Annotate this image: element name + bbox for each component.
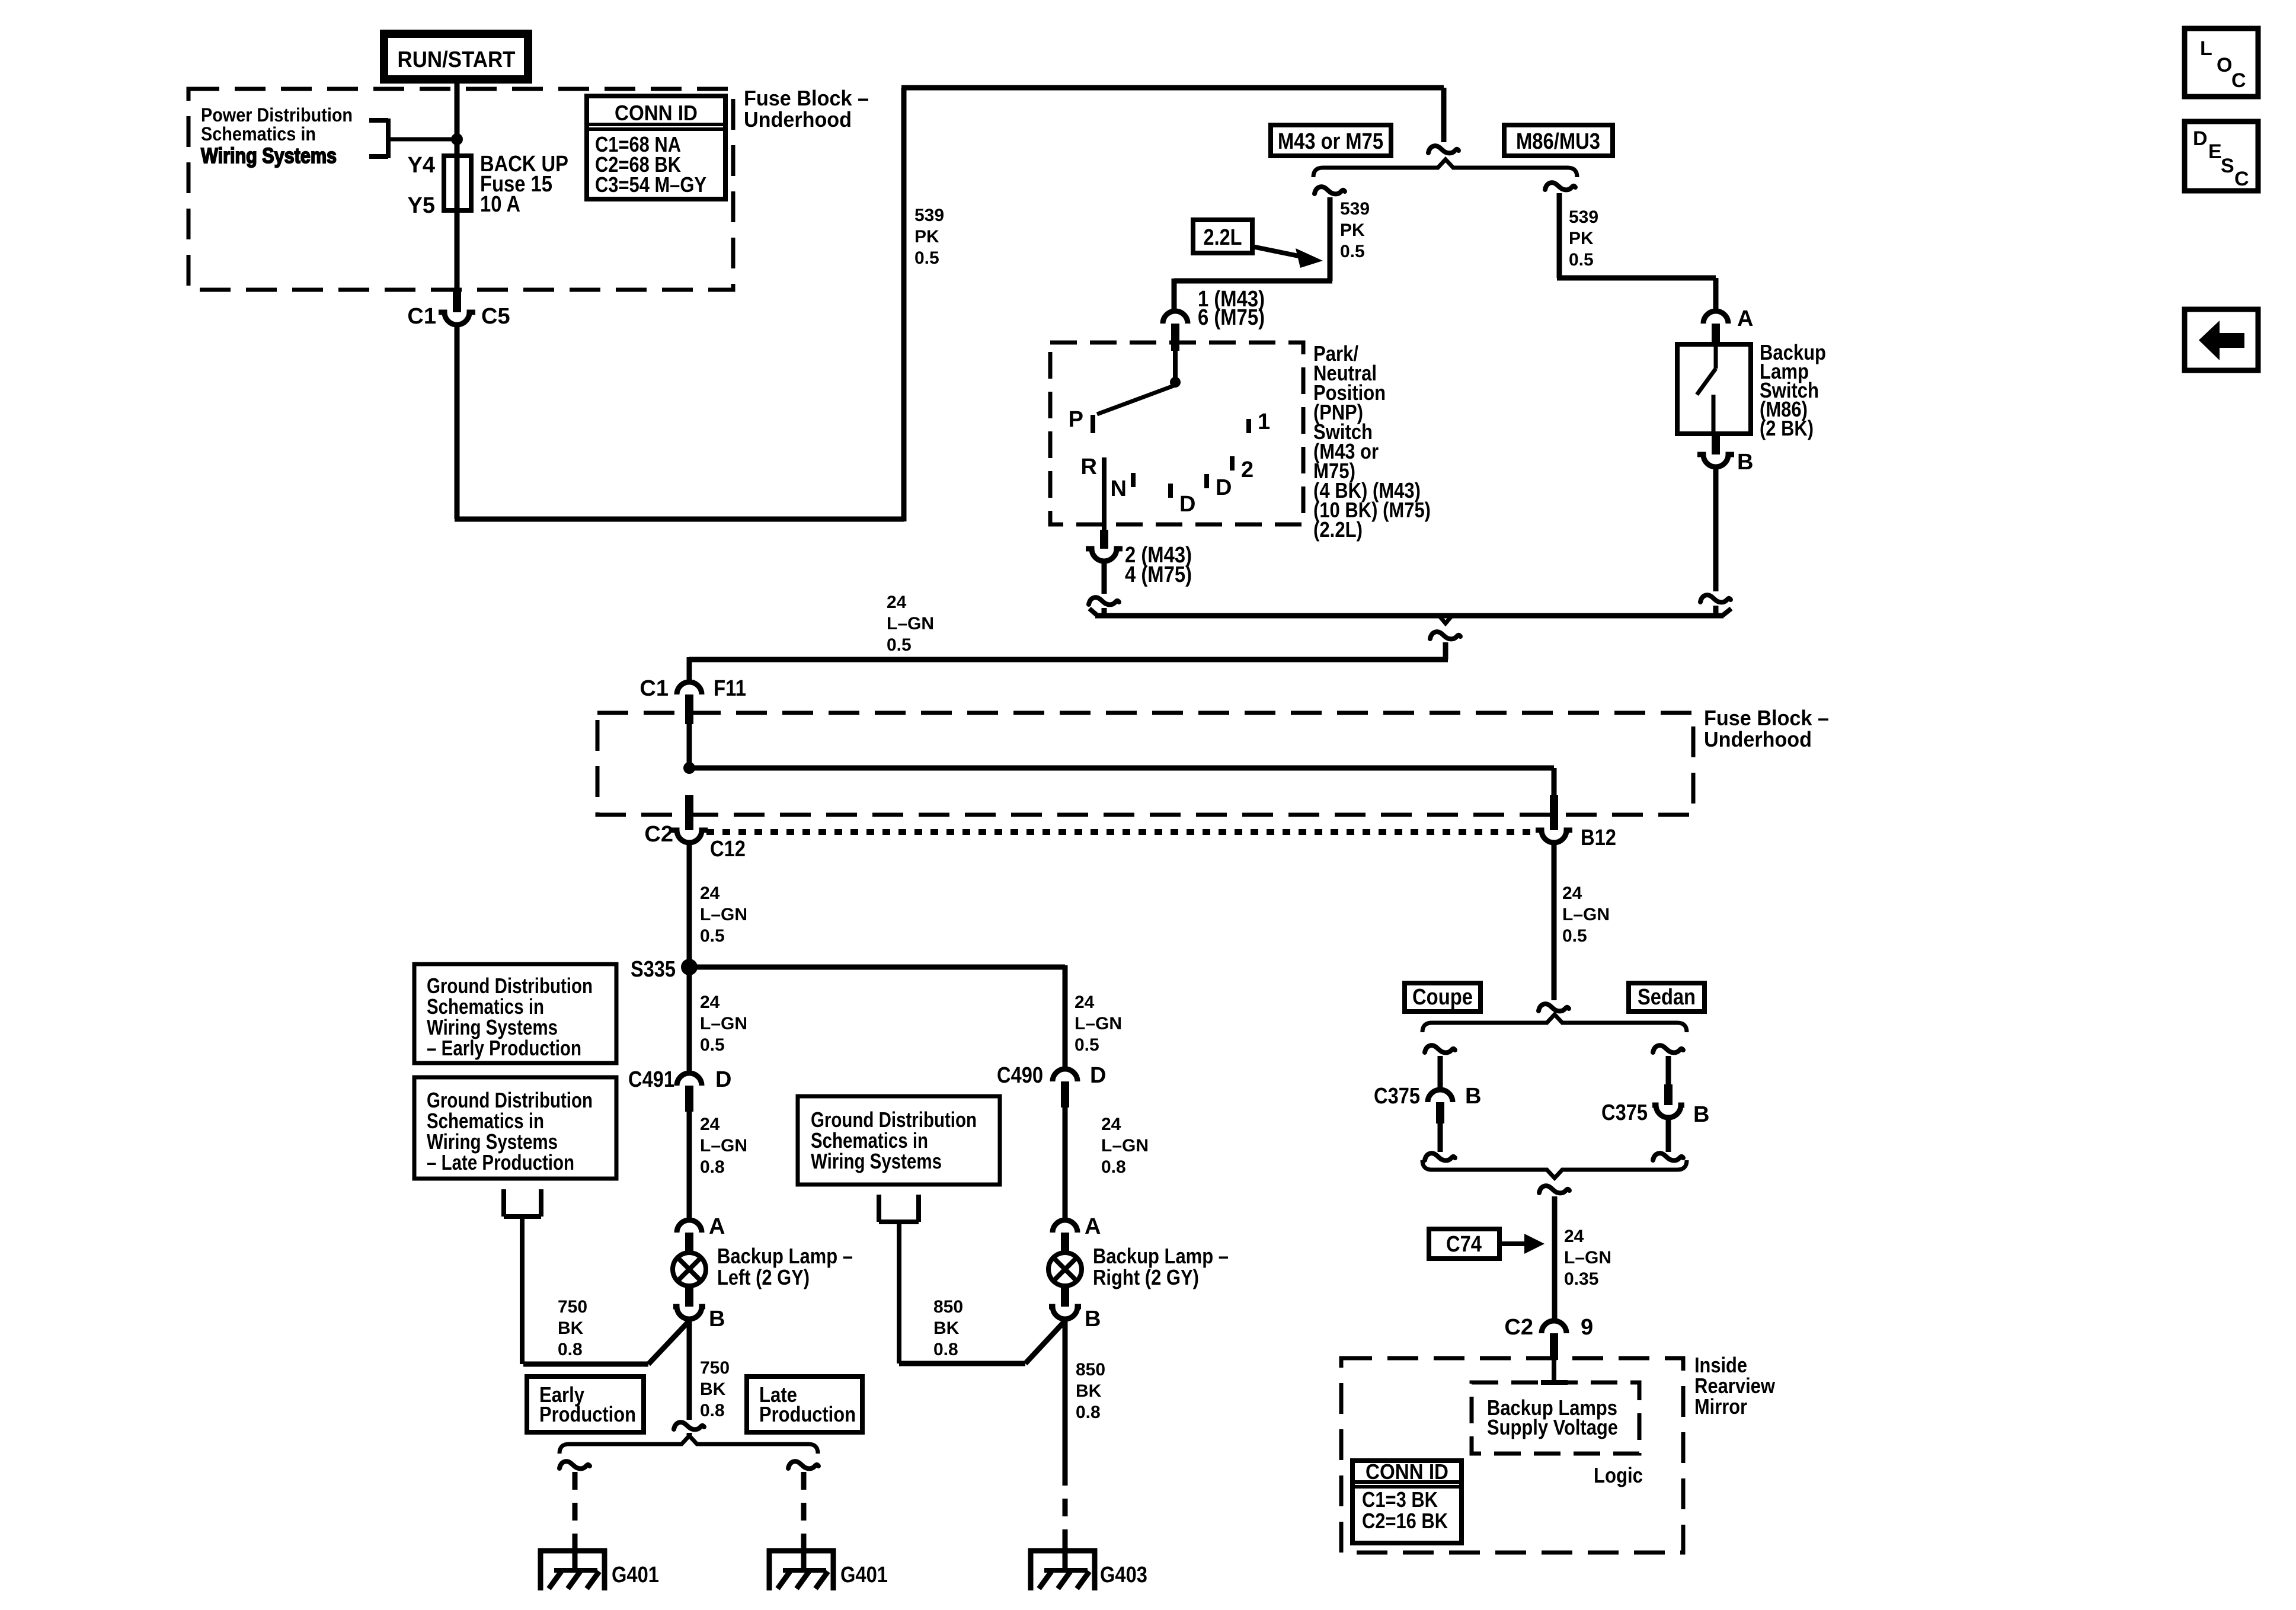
svg-text:Underhood: Underhood bbox=[744, 107, 852, 132]
M86 branch wire bbox=[1545, 183, 1575, 190]
svg-text:Schematics in: Schematics in bbox=[201, 123, 316, 145]
svg-text:M86/MU3: M86/MU3 bbox=[1516, 129, 1600, 154]
tag box Coupe bbox=[1405, 983, 1480, 1012]
svg-text:R: R bbox=[1081, 454, 1097, 479]
svg-text:9: 9 bbox=[1581, 1315, 1593, 1340]
wire 539 PK up bbox=[901, 88, 907, 521]
svg-text:2: 2 bbox=[1241, 457, 1253, 482]
svg-text:24: 24 bbox=[1075, 993, 1095, 1012]
connector C375/B (coupe) bbox=[1428, 1090, 1453, 1102]
svg-text:BK: BK bbox=[1076, 1381, 1102, 1401]
svg-text:0.8: 0.8 bbox=[558, 1340, 583, 1359]
svg-text:PK: PK bbox=[1569, 229, 1594, 248]
svg-text:539: 539 bbox=[914, 206, 944, 225]
wire C5 down and east bbox=[455, 327, 460, 519]
svg-text:0.5: 0.5 bbox=[1075, 1035, 1099, 1055]
svg-text:A: A bbox=[709, 1214, 725, 1239]
tag box early production bbox=[527, 1377, 644, 1432]
CONN ID table (mirror) bbox=[1352, 1459, 1462, 1543]
svg-text:Wiring Systems: Wiring Systems bbox=[811, 1149, 942, 1173]
svg-text:A: A bbox=[1737, 306, 1753, 331]
fuse BACK UP Fuse 15 bbox=[444, 156, 471, 210]
svg-text:CONN ID: CONN ID bbox=[1366, 1459, 1448, 1484]
connector B12 bbox=[1550, 795, 1558, 830]
fuse block underhood dashed box (top) bbox=[188, 89, 733, 290]
PNP switch dashed box bbox=[1050, 343, 1303, 524]
wire down to split bbox=[1441, 88, 1447, 142]
svg-text:Fuse Block –: Fuse Block – bbox=[744, 86, 869, 110]
svg-text:CONN ID: CONN ID bbox=[615, 101, 698, 125]
svg-text:BK: BK bbox=[700, 1379, 726, 1399]
svg-text:0.5: 0.5 bbox=[700, 926, 725, 946]
fuse block underhood dashed box (middle) bbox=[597, 713, 1693, 815]
svg-text:850: 850 bbox=[933, 1297, 963, 1317]
svg-text:C490: C490 bbox=[997, 1063, 1043, 1088]
note box: ground distribution (middle) bbox=[798, 1096, 1000, 1185]
svg-text:D: D bbox=[1216, 475, 1232, 500]
svg-text:L–GN: L–GN bbox=[1101, 1136, 1149, 1156]
svg-text:10 A: 10 A bbox=[480, 192, 520, 217]
tag box C74 bbox=[1429, 1229, 1499, 1259]
left ground wire bbox=[559, 1461, 590, 1468]
svg-text:– Late Production: – Late Production bbox=[427, 1150, 574, 1174]
svg-text:Backup Lamp –: Backup Lamp – bbox=[717, 1244, 853, 1268]
connector A (left lamp) bbox=[677, 1220, 702, 1233]
tag box late production bbox=[747, 1377, 862, 1432]
svg-text:C2: C2 bbox=[1504, 1315, 1533, 1340]
backup lamps supply voltage dashed box bbox=[1472, 1382, 1639, 1454]
wire top run east bbox=[901, 85, 1444, 91]
svg-text:RUN/START: RUN/START bbox=[398, 47, 516, 72]
split brace M43-M75 / M86-MU3 bbox=[1313, 159, 1577, 177]
svg-text:D: D bbox=[1090, 1063, 1106, 1088]
svg-text:L–GN: L–GN bbox=[1564, 1248, 1611, 1267]
svg-text:B: B bbox=[1085, 1307, 1101, 1331]
svg-text:C2: C2 bbox=[644, 822, 673, 847]
terminal R (to backup lamps) bbox=[1102, 457, 1107, 530]
wire to mirror bbox=[1552, 1196, 1558, 1319]
svg-text:L–GN: L–GN bbox=[1075, 1014, 1122, 1033]
svg-text:P: P bbox=[1069, 407, 1083, 432]
svg-text:D: D bbox=[1179, 492, 1195, 517]
svg-text:750: 750 bbox=[558, 1297, 587, 1317]
svg-text:0.8: 0.8 bbox=[700, 1401, 725, 1420]
split brace to grounds bbox=[559, 1436, 818, 1454]
svg-text:L: L bbox=[2200, 37, 2212, 60]
svg-text:PK: PK bbox=[1340, 220, 1365, 240]
left branch wire (PNP) bbox=[1315, 187, 1345, 194]
svg-text:C: C bbox=[2234, 168, 2249, 190]
backup lamp switch M86 box bbox=[1677, 344, 1751, 434]
svg-text:0.8: 0.8 bbox=[933, 1340, 958, 1359]
junction node at fuse feed bbox=[451, 133, 463, 145]
icon box LOC bbox=[2185, 28, 2258, 97]
inside rearview mirror dashed box bbox=[1341, 1358, 1683, 1553]
connector A (lamp switch) bbox=[1703, 311, 1728, 324]
svg-text:D: D bbox=[2193, 127, 2208, 150]
svg-text:0.5: 0.5 bbox=[887, 635, 912, 655]
PNP wiper blade bbox=[1097, 385, 1175, 414]
tag box M43 or M75 bbox=[1271, 125, 1391, 156]
wire C491 to lamp bbox=[687, 1112, 692, 1218]
svg-text:0.5: 0.5 bbox=[700, 1035, 725, 1055]
early production ground path bbox=[648, 1321, 689, 1364]
connector C1/C5 bbox=[453, 290, 461, 312]
icon box back arrow bbox=[2185, 309, 2258, 370]
backup lamp left bbox=[673, 1253, 706, 1286]
wire B down bbox=[1713, 469, 1719, 591]
svg-text:– Early Production: – Early Production bbox=[427, 1036, 581, 1060]
svg-text:0.5: 0.5 bbox=[1562, 926, 1587, 946]
svg-text:L–GN: L–GN bbox=[700, 1136, 747, 1156]
connector 2(M43)/4(M75) bbox=[1100, 530, 1108, 549]
svg-text:Fuse Block –: Fuse Block – bbox=[1704, 706, 1829, 730]
svg-text:Y5: Y5 bbox=[408, 193, 435, 218]
sedan branch bbox=[1653, 1045, 1683, 1052]
wire S335 to C490 bbox=[1063, 965, 1068, 1067]
svg-text:C491: C491 bbox=[628, 1067, 674, 1092]
svg-text:Wiring Systems: Wiring Systems bbox=[201, 143, 337, 168]
svg-text:M43 or M75: M43 or M75 bbox=[1278, 129, 1383, 154]
backup lamp right bbox=[1048, 1253, 1082, 1286]
connector C2/C12 bbox=[685, 795, 693, 830]
bracket under middle note bbox=[879, 1195, 919, 1363]
svg-text:S: S bbox=[2221, 155, 2234, 177]
svg-text:BK: BK bbox=[933, 1318, 960, 1338]
wire B12 down bbox=[1552, 844, 1557, 1000]
wire C12 to S335 bbox=[687, 844, 692, 967]
note box: ground distribution early production bbox=[414, 964, 616, 1063]
svg-text:Coupe: Coupe bbox=[1412, 985, 1473, 1010]
svg-text:B: B bbox=[1737, 450, 1753, 475]
svg-text:24: 24 bbox=[1101, 1115, 1121, 1134]
connector row dotted line bbox=[706, 829, 1539, 835]
terminal N bbox=[1131, 473, 1136, 487]
svg-text:4 (M75): 4 (M75) bbox=[1125, 562, 1192, 587]
tag box Sedan bbox=[1629, 983, 1705, 1012]
svg-text:24: 24 bbox=[1562, 884, 1582, 903]
svg-text:750: 750 bbox=[700, 1358, 730, 1378]
wire into logic bbox=[1552, 1360, 1556, 1382]
ground G401 bbox=[538, 1538, 607, 1590]
power feed box RUN/START bbox=[384, 34, 528, 79]
svg-text:G401: G401 bbox=[612, 1563, 659, 1587]
svg-text:C1: C1 bbox=[407, 304, 436, 329]
svg-text:24: 24 bbox=[700, 1115, 720, 1134]
svg-text:Left (2 GY): Left (2 GY) bbox=[717, 1265, 810, 1289]
svg-text:C2=16 BK: C2=16 BK bbox=[1362, 1509, 1448, 1533]
svg-text:Y4: Y4 bbox=[408, 153, 435, 178]
svg-text:B: B bbox=[1465, 1084, 1481, 1109]
connector A (right lamp) bbox=[1053, 1220, 1077, 1233]
svg-text:B: B bbox=[1693, 1102, 1709, 1127]
connector C2/9 (mirror) bbox=[1542, 1321, 1566, 1333]
svg-text:1: 1 bbox=[1258, 409, 1270, 434]
svg-text:L–GN: L–GN bbox=[887, 614, 934, 633]
svg-text:(2.2L): (2.2L) bbox=[1313, 517, 1363, 542]
svg-text:A: A bbox=[1085, 1214, 1101, 1239]
svg-text:BK: BK bbox=[558, 1318, 584, 1338]
connector B (left lamp) bbox=[685, 1287, 693, 1307]
svg-text:C74: C74 bbox=[1446, 1232, 1482, 1257]
arrow 2.2L to wire bbox=[1252, 247, 1302, 257]
run west to C1/F11 bbox=[689, 657, 1448, 662]
svg-text:N: N bbox=[1111, 476, 1127, 501]
svg-text:24: 24 bbox=[700, 993, 720, 1012]
connector 1(M43)/6(M75) bbox=[1163, 311, 1188, 324]
svg-text:0.5: 0.5 bbox=[914, 248, 939, 268]
coupe branch bbox=[1425, 1045, 1455, 1052]
CONN ID table (fuse block) bbox=[587, 96, 725, 199]
note box: ground distribution late production bbox=[414, 1077, 616, 1179]
wire right lamp to G403 bbox=[1063, 1321, 1068, 1468]
svg-text:Backup Lamp –: Backup Lamp – bbox=[1093, 1244, 1229, 1268]
wire RUN/START to fuse bbox=[455, 79, 460, 157]
connector B (right lamp) bbox=[1061, 1287, 1069, 1307]
svg-text:G401: G401 bbox=[840, 1563, 888, 1587]
svg-text:PK: PK bbox=[914, 227, 939, 247]
svg-text:E: E bbox=[2208, 140, 2222, 163]
svg-text:C: C bbox=[2231, 69, 2246, 92]
svg-text:Sedan: Sedan bbox=[1638, 985, 1696, 1010]
merge notch bbox=[1439, 616, 1452, 623]
svg-text:Underhood: Underhood bbox=[1704, 727, 1812, 751]
svg-text:C3=54 M–GY: C3=54 M–GY bbox=[595, 172, 706, 197]
svg-text:0.35: 0.35 bbox=[1564, 1269, 1598, 1289]
svg-text:Supply Voltage: Supply Voltage bbox=[1487, 1415, 1618, 1439]
bracket under late production note bbox=[504, 1189, 541, 1364]
wire C490 to lamp bbox=[1063, 1108, 1068, 1218]
terminal 1 bbox=[1246, 419, 1251, 433]
svg-text:C1: C1 bbox=[639, 676, 669, 701]
svg-text:B12: B12 bbox=[1581, 825, 1616, 850]
switch contacts bbox=[1714, 344, 1718, 369]
svg-text:D: D bbox=[715, 1067, 731, 1092]
terminal P bbox=[1091, 415, 1095, 433]
PNP wiper feed bbox=[1173, 351, 1178, 382]
svg-text:Production: Production bbox=[539, 1402, 636, 1426]
wire break below merge notch bbox=[1430, 632, 1460, 639]
tag box 2.2L bbox=[1193, 220, 1252, 253]
svg-text:C1=3 BK: C1=3 BK bbox=[1362, 1487, 1438, 1512]
connector B (lamp switch) bbox=[1712, 434, 1720, 454]
svg-text:539: 539 bbox=[1569, 207, 1598, 227]
svg-text:Production: Production bbox=[759, 1402, 856, 1426]
svg-text:Power Distribution: Power Distribution bbox=[201, 104, 353, 126]
merge brace coupe/sedan bbox=[1422, 1160, 1687, 1178]
svg-text:0.5: 0.5 bbox=[1340, 242, 1365, 261]
svg-text:6 (M75): 6 (M75) bbox=[1198, 305, 1265, 330]
terminal D (low) bbox=[1168, 484, 1173, 498]
wire S335 to C491 bbox=[687, 967, 692, 1071]
svg-text:S335: S335 bbox=[631, 957, 676, 982]
svg-text:0.8: 0.8 bbox=[1076, 1403, 1101, 1422]
splice S335 bbox=[681, 959, 698, 975]
svg-text:539: 539 bbox=[1340, 199, 1370, 219]
arrow C74 to wire bbox=[1499, 1241, 1524, 1246]
ground G401 bbox=[767, 1538, 836, 1590]
run from PNP to junction, 24 L-GN bbox=[1089, 609, 1098, 616]
connector C490/D bbox=[1053, 1069, 1077, 1081]
svg-text:C12: C12 bbox=[710, 837, 746, 862]
tag box M86/MU3 bbox=[1504, 125, 1613, 156]
right ground wire bbox=[788, 1461, 818, 1468]
svg-text:C375: C375 bbox=[1374, 1084, 1420, 1109]
svg-text:C375: C375 bbox=[1601, 1100, 1648, 1125]
svg-text:24: 24 bbox=[1564, 1227, 1584, 1246]
svg-text:24: 24 bbox=[700, 884, 720, 903]
icon box DESC bbox=[2185, 121, 2258, 191]
late production ground path bbox=[687, 1321, 692, 1420]
svg-text:C5: C5 bbox=[481, 304, 510, 329]
svg-text:O: O bbox=[2217, 54, 2232, 76]
svg-text:L–GN: L–GN bbox=[1562, 905, 1610, 924]
ground G403 bbox=[1028, 1538, 1097, 1590]
svg-text:F11: F11 bbox=[714, 676, 746, 701]
svg-text:B: B bbox=[709, 1307, 725, 1331]
svg-text:Right (2 GY): Right (2 GY) bbox=[1093, 1265, 1199, 1289]
svg-text:Mirror: Mirror bbox=[1694, 1394, 1747, 1419]
wire R down bbox=[1102, 563, 1107, 594]
svg-text:L–GN: L–GN bbox=[700, 1014, 747, 1033]
svg-text:Logic: Logic bbox=[1594, 1463, 1643, 1487]
svg-text:L–GN: L–GN bbox=[700, 905, 747, 924]
terminal 2 bbox=[1230, 456, 1235, 470]
connector C491/D bbox=[677, 1073, 702, 1086]
connector C1/F11 bbox=[677, 682, 702, 694]
svg-text:G403: G403 bbox=[1100, 1563, 1147, 1587]
svg-text:2.2L: 2.2L bbox=[1204, 225, 1242, 250]
svg-text:0.8: 0.8 bbox=[1101, 1157, 1126, 1177]
svg-text:0.8: 0.8 bbox=[700, 1157, 725, 1177]
svg-text:0.5: 0.5 bbox=[1569, 250, 1594, 270]
note bracket bbox=[369, 119, 457, 158]
terminal D (mid) bbox=[1204, 474, 1209, 488]
right lamp ground path (to mid note) bbox=[1025, 1321, 1065, 1363]
internal bus wire bbox=[687, 724, 692, 768]
wire break above coupe/sedan split bbox=[1539, 1004, 1569, 1011]
split brace coupe/sedan bbox=[1422, 1014, 1687, 1032]
svg-text:(2 BK): (2 BK) bbox=[1760, 416, 1814, 440]
svg-text:24: 24 bbox=[887, 593, 907, 612]
svg-text:850: 850 bbox=[1076, 1360, 1105, 1379]
connector C375/B (sedan) bbox=[1664, 1084, 1673, 1105]
